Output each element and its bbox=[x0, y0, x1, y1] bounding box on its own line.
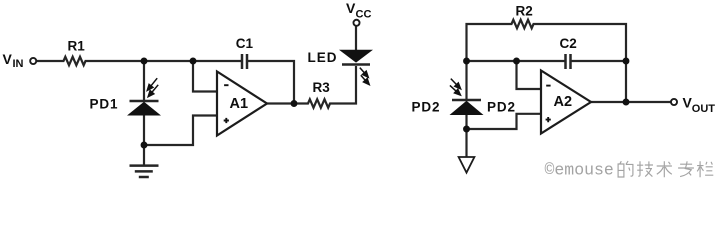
svg-text:CC: CC bbox=[356, 9, 372, 21]
svg-text:A1: A1 bbox=[230, 96, 249, 112]
svg-text:PD2: PD2 bbox=[487, 99, 516, 114]
svg-text:R2: R2 bbox=[516, 4, 533, 19]
svg-text:V: V bbox=[346, 0, 356, 16]
svg-text:C1: C1 bbox=[236, 36, 254, 51]
svg-text:V: V bbox=[3, 51, 13, 67]
svg-text:IN: IN bbox=[13, 58, 24, 70]
svg-text:A2: A2 bbox=[554, 94, 573, 110]
svg-text:LED: LED bbox=[308, 50, 338, 65]
svg-text:©emouse: ©emouse bbox=[545, 161, 614, 180]
svg-text:OUT: OUT bbox=[692, 103, 716, 115]
svg-text:PD1: PD1 bbox=[90, 97, 119, 112]
svg-text:R1: R1 bbox=[68, 39, 86, 54]
svg-text:C2: C2 bbox=[560, 36, 577, 51]
svg-text:R3: R3 bbox=[313, 80, 331, 95]
svg-text:PD2: PD2 bbox=[412, 99, 441, 114]
